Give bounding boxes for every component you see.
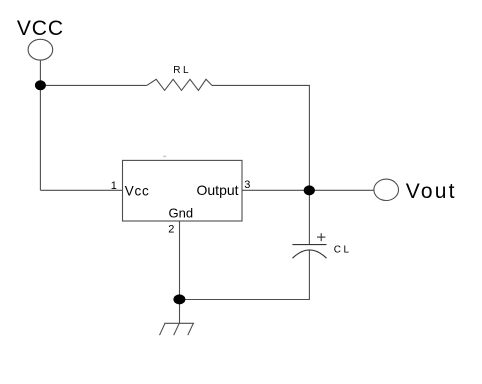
svg-text:CL: CL	[334, 245, 352, 256]
svg-text:Vcc: Vcc	[125, 184, 150, 199]
svg-text:RL: RL	[173, 65, 191, 76]
svg-text:VCC: VCC	[17, 17, 64, 40]
svg-text:1: 1	[111, 180, 117, 192]
svg-text:Gnd: Gnd	[169, 206, 194, 221]
svg-text:2: 2	[168, 224, 174, 236]
svg-text:Vout: Vout	[406, 180, 457, 203]
svg-text:Output: Output	[197, 182, 239, 198]
svg-text:3: 3	[244, 179, 250, 191]
